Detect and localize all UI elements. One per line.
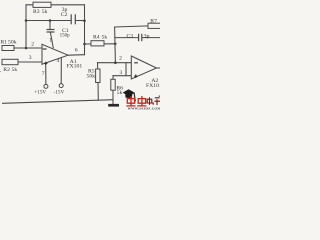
svg-text:FX101: FX101 — [66, 64, 82, 70]
wire C2 row left — [26, 20, 71, 22]
node C2 right — [83, 20, 86, 23]
capacitor C1 top lead — [49, 21, 51, 30]
wire A2 output — [157, 67, 161, 69]
resistor R4 — [91, 41, 104, 46]
wire C3 row left — [115, 37, 138, 39]
wire A2 input link — [125, 63, 127, 76]
wire R5 bottom lead — [97, 83, 99, 101]
A1 plus sign — [44, 62, 47, 64]
wire A2 pin3 row — [113, 75, 131, 77]
svg-text:2: 2 — [31, 42, 34, 48]
wire R5 top lead — [97, 63, 99, 69]
svg-text:4: 4 — [57, 58, 60, 64]
svg-text:5k: 5k — [42, 9, 48, 15]
svg-text:5k: 5k — [117, 90, 123, 96]
svg-text:3: 3 — [29, 55, 32, 61]
wire left feedback column — [25, 5, 27, 48]
wire R1 to node — [14, 47, 42, 49]
A2 minus sign — [134, 62, 138, 64]
resistor R7 — [148, 23, 161, 28]
node R1 / pin2 — [25, 47, 28, 50]
A2 plus sign — [134, 75, 137, 77]
svg-text:50k: 50k — [87, 74, 96, 80]
wire A2 pin2 row — [98, 62, 132, 64]
svg-text:R2: R2 — [3, 67, 10, 73]
wire R7 row — [115, 26, 148, 27]
svg-text:R1: R1 — [1, 39, 8, 45]
wire C2 row right — [76, 20, 85, 22]
svg-text:3: 3 — [120, 70, 123, 76]
watermark text dian (dark) — [147, 97, 153, 105]
capacitor C1 plates — [47, 29, 55, 31]
wire A2 node column — [114, 27, 117, 63]
node C1 top — [49, 19, 52, 22]
wire R6 top lead — [112, 76, 114, 80]
svg-text:3p: 3p — [144, 33, 150, 39]
resistor R2 — [2, 59, 18, 64]
svg-text:R4: R4 — [93, 35, 100, 41]
wire A1 feedback right column — [84, 5, 86, 55]
wire R4 row — [85, 43, 116, 45]
capacitor C1 bottom lead — [50, 32, 53, 47]
svg-text:1: 1 — [49, 37, 52, 43]
svg-text:WWW.SSJDZ.COM: WWW.SSJDZ.COM — [128, 107, 161, 111]
watermark text chong #2 — [137, 96, 146, 106]
resistor R3 — [33, 2, 51, 7]
terminal +15V — [44, 84, 48, 88]
watermark text zi (dark, cut) — [154, 96, 160, 105]
capacitor C3 plates — [138, 34, 140, 41]
svg-text:150p: 150p — [60, 34, 71, 39]
svg-text:R7: R7 — [150, 18, 157, 24]
terminal -15V — [59, 84, 63, 88]
node feedback left / C2 — [25, 19, 28, 22]
wire R6 bottom lead to ground — [112, 90, 114, 104]
svg-text:50k: 50k — [8, 39, 17, 45]
resistor R6 — [111, 79, 115, 90]
A1 minus sign — [43, 48, 47, 50]
ground under R6 — [108, 104, 119, 107]
wire pin4 stub — [60, 57, 62, 83]
watermark graduation cap — [123, 89, 136, 101]
svg-text:6: 6 — [75, 48, 78, 54]
wire A1 output — [68, 54, 85, 57]
wire top feedback row — [26, 4, 85, 6]
resistor R1 — [2, 46, 14, 51]
capacitor C2 plates — [70, 14, 72, 24]
svg-text:2: 2 — [119, 56, 122, 62]
wire C3 row right — [142, 37, 160, 39]
svg-text:C2: C2 — [61, 12, 68, 18]
node A2 pin2 — [114, 61, 117, 64]
svg-text:C3: C3 — [127, 33, 134, 39]
wire pin7 stub — [45, 63, 47, 85]
wire bottom rail — [3, 100, 114, 104]
wire R2 to pin3 — [18, 61, 42, 63]
node R4 / A2 pin2 column — [114, 43, 117, 46]
svg-text:7: 7 — [42, 71, 45, 77]
svg-text:+15V: +15V — [34, 90, 46, 96]
svg-text:R3: R3 — [33, 9, 40, 15]
svg-text:-15V: -15V — [54, 90, 65, 96]
svg-text:5k: 5k — [12, 67, 18, 73]
op-amp A2 — [131, 56, 156, 79]
op-amp A1 — [42, 44, 68, 64]
watermark text chong #1 — [126, 96, 135, 106]
svg-text:5k: 5k — [102, 35, 108, 41]
resistor R5 — [96, 69, 100, 83]
node A1 out / R4 — [83, 43, 86, 46]
svg-text:FX101: FX101 — [146, 83, 160, 89]
